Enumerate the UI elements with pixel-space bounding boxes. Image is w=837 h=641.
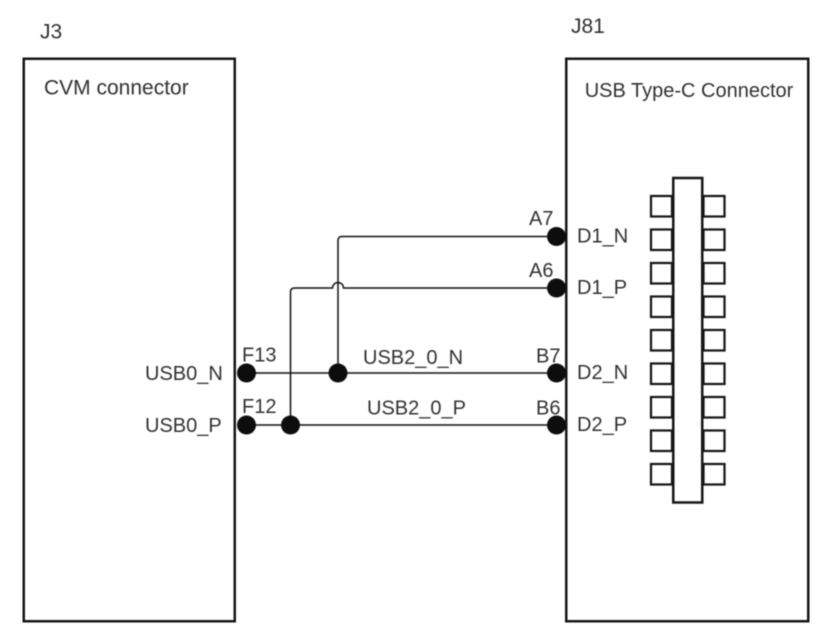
wire USB2_0_N: F13 to B7 bbox=[240, 372, 560, 374]
junction dot on USB2_0_P wire bbox=[281, 416, 300, 435]
svg-text:D2_P: D2_P bbox=[577, 414, 627, 436]
svg-text:F12: F12 bbox=[242, 396, 276, 418]
junction dot on USB2_0_N wire bbox=[329, 364, 348, 383]
pin dot B6 on J81 bbox=[547, 416, 566, 435]
svg-text:D1_N: D1_N bbox=[577, 226, 628, 248]
svg-text:CVM connector: CVM connector bbox=[44, 77, 189, 100]
svg-text:USB Type-C Connector: USB Type-C Connector bbox=[585, 80, 794, 102]
USB Type-C connector symbol body bbox=[673, 178, 702, 503]
svg-text:D2_N: D2_N bbox=[577, 362, 628, 384]
svg-text:B7: B7 bbox=[536, 346, 560, 368]
svg-text:F13: F13 bbox=[242, 345, 276, 367]
wire USB2_0_P: F12 to B6 bbox=[240, 424, 560, 426]
pin dot A7 on J81 bbox=[547, 227, 566, 246]
svg-text:USB2_0_N: USB2_0_N bbox=[363, 347, 463, 369]
svg-text:B6: B6 bbox=[536, 398, 560, 420]
connector J81 box (USB Type-C Connector) bbox=[566, 59, 808, 622]
svg-text:USB0_N: USB0_N bbox=[145, 363, 223, 385]
pin dot A6 on J81 bbox=[547, 279, 566, 298]
wire branch from USB2_0_P junction up and right to pin A6 (D1_P), hop over vertical wire bbox=[291, 283, 561, 425]
svg-text:A7: A7 bbox=[529, 208, 553, 230]
pin dot F12 on J3 bbox=[237, 416, 256, 435]
connector symbol left pin pads bbox=[651, 196, 672, 485]
svg-text:J3: J3 bbox=[40, 21, 62, 44]
connector J3 box (CVM connector) bbox=[24, 59, 235, 622]
svg-text:USB2_0_P: USB2_0_P bbox=[367, 398, 466, 420]
connector symbol right pin pads bbox=[704, 196, 725, 485]
pin dot B7 on J81 bbox=[547, 364, 566, 383]
wire branch from USB2_0_N junction up and right to pin A7 (D1_N) bbox=[338, 237, 560, 374]
svg-text:J81: J81 bbox=[571, 15, 605, 38]
svg-text:A6: A6 bbox=[529, 260, 553, 282]
pin dot F13 on J3 bbox=[237, 364, 256, 383]
svg-text:USB0_P: USB0_P bbox=[145, 415, 222, 437]
svg-text:D1_P: D1_P bbox=[577, 277, 627, 299]
